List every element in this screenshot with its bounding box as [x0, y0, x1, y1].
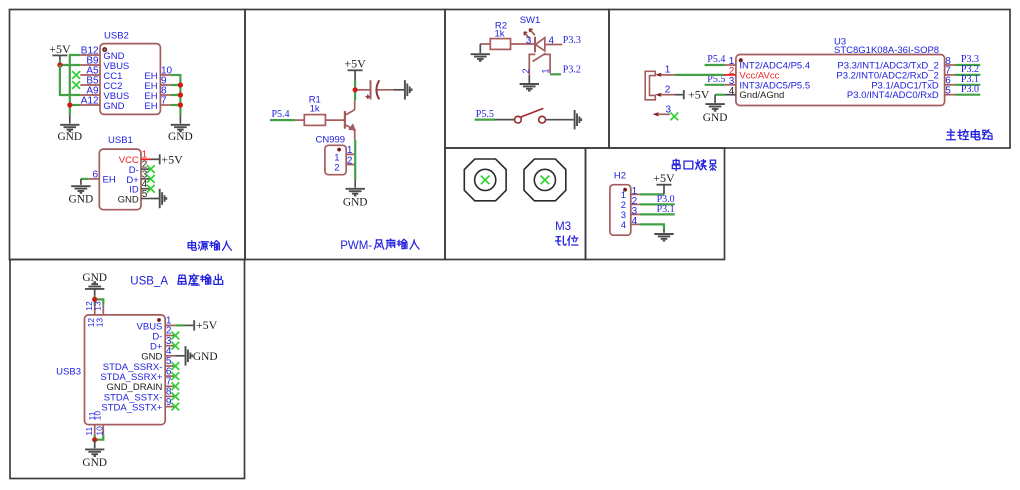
mounting hole M3 pad 2 — [524, 159, 566, 201]
U3 pin 6 — [945, 84, 955, 86]
wire +5V to VBUS A9 — [60, 65, 80, 95]
ground flipped (USB3 top) — [85, 288, 104, 290]
wire P3.3 — [955, 64, 981, 66]
mounting hole M3 pad 1 — [464, 159, 506, 201]
wire emitter to CN999 — [354, 140, 356, 165]
USB1 pin 5 GND — [141, 198, 151, 200]
svg-text:10: 10 — [95, 426, 105, 436]
no-connect X USB3 pin 7 — [171, 382, 179, 390]
svg-text:2: 2 — [665, 85, 671, 96]
switch lever — [521, 108, 544, 117]
collector pin — [354, 100, 356, 110]
H2 pin 2 — [631, 203, 640, 205]
USB1 pin 6 EH — [88, 178, 99, 180]
svg-text:EH: EH — [103, 175, 116, 186]
section frame: switch/LED — [445, 10, 609, 149]
wire EH7 — [170, 104, 180, 106]
wire P3.2 — [955, 74, 981, 76]
USB2 pin A9 — [80, 94, 100, 96]
gnd lead — [528, 75, 530, 83]
wire to P3.2 — [550, 73, 561, 75]
svg-text:USB1: USB1 — [108, 135, 133, 146]
svg-text:GND: GND — [343, 196, 368, 208]
wire P5.4 — [705, 64, 725, 66]
wire to GND — [151, 198, 160, 200]
USB1 pin 1 VCC — [141, 158, 151, 160]
no-connect X on CC2 — [72, 81, 80, 89]
switch lever — [533, 53, 546, 61]
svg-text:7: 7 — [161, 95, 167, 106]
wire pin4 to gnd — [715, 94, 725, 96]
junction GND top — [92, 297, 97, 302]
resistor R1 body — [304, 115, 325, 126]
connector USB2 body — [100, 44, 160, 115]
ground (H2) — [663, 230, 665, 233]
USB2 pin A5 — [80, 74, 100, 76]
USB3 pin 4 — [165, 355, 175, 357]
ground (USB2 left) — [69, 115, 71, 124]
title text serial — [672, 159, 680, 170]
wire H2 pin2 P3.0 — [640, 203, 675, 205]
CN999 pin-1 dot — [337, 148, 341, 152]
R2 right pin / wire to LED — [511, 43, 536, 45]
plug pin 1 — [655, 73, 661, 77]
svg-text:USB_A: USB_A — [130, 275, 168, 287]
+5V lead — [59, 55, 61, 60]
wire plug to Vcc — [675, 74, 724, 76]
no-connect X on CC1 — [72, 71, 80, 79]
svg-text:5: 5 — [945, 86, 951, 97]
no-connect X USB3 pin 9 — [171, 403, 179, 411]
svg-text:5: 5 — [142, 189, 148, 200]
plug connector (power in) body — [645, 71, 655, 100]
USB3 pin 9 — [165, 406, 175, 408]
USB3 pin 1 — [165, 324, 175, 326]
H2 pin 4 — [631, 223, 640, 225]
+5V flag (H2) — [657, 184, 672, 186]
USB3 pin-1 dot — [157, 318, 161, 322]
U3 pin 3 / P5.5 — [725, 84, 736, 86]
USB2 pin 8 — [160, 94, 170, 96]
wire P5.5 — [705, 84, 725, 86]
switch contact circle — [515, 116, 522, 123]
USB3 pin 6 — [165, 375, 175, 377]
svg-text:+5V: +5V — [161, 152, 183, 166]
svg-text:STDA_SSTX+: STDA_SSTX+ — [101, 403, 162, 414]
U3 pin-1 dot — [739, 58, 743, 62]
ground (R2) — [471, 53, 490, 55]
R1 right pin to base — [325, 119, 344, 121]
no-connect X plug pin3 — [670, 113, 678, 121]
wire pins 11/10 to GND — [94, 435, 96, 440]
svg-text:+5V: +5V — [196, 318, 218, 332]
junction collector/+5V — [353, 87, 358, 92]
ground sideways (USB3 pin4) — [185, 346, 187, 365]
svg-text:P3.3: P3.3 — [563, 35, 581, 46]
USB1 pin 2 — [141, 168, 151, 170]
wire H2 pin3 P3.1 — [640, 213, 675, 215]
svg-text:P5.4: P5.4 — [272, 109, 290, 120]
IC U3 body — [736, 55, 945, 106]
svg-text:13: 13 — [95, 318, 105, 328]
gnd lead — [479, 44, 481, 53]
USB3 pin 10 — [102, 425, 104, 435]
USB2 pin 10 — [160, 74, 170, 76]
svg-text:2: 2 — [347, 155, 353, 166]
svg-text:1: 1 — [665, 65, 671, 76]
ground sideways (P5.5 switch) — [574, 110, 576, 129]
svg-text:H2: H2 — [614, 171, 626, 182]
ground (SW1) — [520, 83, 539, 85]
ground (U3) — [714, 95, 716, 103]
USB3 pin 13 — [102, 305, 104, 315]
title text usb-a — [178, 275, 186, 284]
+5V lead — [354, 70, 356, 80]
svg-text:4: 4 — [632, 216, 638, 227]
wire P5.4 — [270, 119, 295, 121]
svg-text:GND: GND — [69, 194, 94, 206]
ground (CN999) — [354, 180, 356, 187]
LED emission arrows — [529, 29, 535, 35]
U3 pin 8 — [945, 64, 955, 66]
connector USB1 body — [99, 149, 141, 210]
switch contacts SW1 — [529, 54, 535, 75]
junction GND bottom — [92, 437, 97, 442]
ground (USB3 bottom) — [94, 440, 96, 449]
H2 pin 1 — [631, 193, 640, 195]
emitter pin — [354, 130, 356, 140]
svg-text:11: 11 — [84, 427, 94, 436]
USB2 pin 7 — [160, 104, 170, 106]
svg-text:+5V: +5V — [653, 171, 675, 185]
wire cap to ground — [394, 89, 405, 91]
R1 left pin — [295, 119, 304, 121]
svg-text:2: 2 — [521, 68, 531, 73]
LED anode wire — [545, 44, 563, 46]
svg-text:P3.0/INT4/ADC0/RxD: P3.0/INT4/ADC0/RxD — [847, 90, 939, 101]
junction EH — [178, 82, 183, 87]
CN999 pin 2 — [346, 164, 355, 166]
svg-text:GND: GND — [57, 131, 82, 143]
USB1 pin 4 — [141, 188, 151, 190]
title text pwm — [374, 240, 384, 249]
svg-text:10: 10 — [92, 411, 102, 421]
USB3 pin 11 — [94, 425, 96, 435]
svg-text:GND: GND — [168, 131, 193, 143]
wire GND pin4 sideways — [175, 355, 184, 357]
section frame: serial programming — [586, 148, 725, 260]
wire P5.5 — [475, 118, 495, 120]
svg-text:PWM-: PWM- — [340, 240, 372, 252]
USB3 pin 12 — [94, 305, 96, 315]
wire P3.0 — [955, 94, 981, 96]
USB2 pin B5 — [80, 84, 100, 86]
USB3 pin 8 — [165, 395, 175, 397]
USB2 pin 9 — [160, 84, 170, 86]
U3 pin 4 Gnd — [725, 94, 736, 96]
section frame: M3 holes — [445, 148, 586, 260]
USB2 pin-1 indicator — [103, 48, 106, 51]
wire EH9 — [170, 84, 180, 86]
wire pin6 — [81, 178, 89, 180]
no-connect X USB3 pin 6 — [171, 372, 179, 380]
svg-text:6: 6 — [92, 169, 98, 180]
capacitor C (polarized) — [358, 89, 370, 91]
wire VBUS to +5V — [175, 324, 185, 326]
junction EH — [178, 102, 183, 107]
wire H2 pin1 to +5V — [640, 193, 664, 195]
junction GND net — [67, 102, 72, 107]
USB3 pin 3 — [165, 345, 175, 347]
wire USB3 pins 12/13 to GND — [94, 296, 96, 305]
no-connect X pin 4 — [147, 185, 155, 193]
R2 left pin — [480, 43, 490, 45]
svg-text:P5.5: P5.5 — [476, 109, 494, 120]
svg-text:P3.1: P3.1 — [657, 204, 675, 215]
CN999 pin 1 — [346, 153, 355, 155]
svg-text:9: 9 — [166, 397, 172, 408]
svg-text:4: 4 — [621, 220, 626, 231]
ground sideways (cap) — [404, 80, 406, 99]
H2 pin 3 — [631, 213, 640, 215]
USB2 pin B12 — [80, 54, 100, 56]
svg-text:13: 13 — [93, 301, 103, 311]
U3 pin 2 Vcc — [724, 74, 736, 76]
wire GND B12 to A12 — [70, 55, 81, 115]
junction EH — [178, 92, 183, 97]
wire to +5V — [675, 94, 683, 96]
wire to A12 — [70, 104, 81, 106]
svg-text:GND: GND — [103, 101, 124, 112]
USB2 pin B9 — [80, 64, 100, 66]
no-connect X USB3 pin 8 — [171, 393, 179, 401]
svg-text:GND: GND — [703, 112, 728, 124]
section frame: main control — [609, 10, 1010, 149]
plug pin 3 (floating) — [653, 112, 659, 116]
svg-text:GND: GND — [193, 351, 218, 363]
title text main-control — [946, 129, 955, 139]
+5V flag sideways (plug) — [683, 90, 685, 99]
U3 pin 5 — [945, 94, 955, 96]
junction +5V net — [57, 62, 62, 67]
svg-text:A12: A12 — [81, 95, 99, 106]
no-connect X USB3 pin 5 — [171, 362, 179, 370]
wire H2 pin4 to GND — [640, 224, 664, 230]
svg-text:1k: 1k — [310, 103, 320, 114]
svg-text:SW1: SW1 — [520, 15, 541, 26]
title text power-input — [188, 241, 196, 251]
wire +5V to collector — [354, 80, 356, 100]
svg-text:GND: GND — [82, 457, 107, 469]
U3 pin 1 / P5.4 — [725, 64, 736, 66]
USB3 pin 2 — [165, 335, 175, 337]
USB3 pin 5 — [165, 365, 175, 367]
H2 pin-1 dot — [623, 188, 627, 192]
svg-text:1: 1 — [540, 68, 550, 73]
ground (USB2 right) — [179, 115, 181, 124]
+5V flag sideways (USB3) — [193, 320, 195, 330]
wire to ground — [546, 119, 574, 121]
section frame: power input — [10, 10, 246, 260]
+5V flag (USB2) — [52, 54, 67, 56]
svg-text:+5V: +5V — [344, 57, 366, 71]
no-connect X pin 2 — [147, 165, 155, 173]
no-connect X USB3 pin 2 — [171, 332, 179, 340]
svg-text:4: 4 — [729, 86, 735, 97]
+5V flag (PWM) — [348, 69, 363, 71]
svg-text:Gnd/AGnd: Gnd/AGnd — [739, 90, 784, 101]
svg-text:USB2: USB2 — [104, 30, 129, 41]
wire to switch — [495, 119, 514, 121]
title text M3 holes — [556, 236, 567, 245]
plug pin 2 — [655, 93, 661, 97]
transistor Q (NPN) — [344, 111, 346, 129]
wire +5V to VBUS — [59, 60, 61, 65]
header H2 body — [610, 185, 631, 236]
svg-text:P5.4: P5.4 — [707, 54, 725, 65]
+5V flag sideways (USB1) — [159, 154, 161, 164]
wire P3.1 — [955, 84, 981, 86]
svg-text:EH: EH — [144, 101, 157, 112]
section frame: PWM fan input — [245, 10, 445, 260]
gnd lead — [80, 179, 82, 185]
svg-text:P3.0: P3.0 — [961, 84, 979, 95]
svg-text:M3: M3 — [555, 221, 571, 233]
USB1 pin 3 — [141, 178, 151, 180]
USB2 pin A12 — [80, 104, 100, 106]
svg-text:+5V: +5V — [688, 87, 710, 101]
ground (USB1 pin6) — [71, 185, 90, 187]
wire EH8 — [170, 94, 180, 96]
connector USB3 body — [85, 315, 166, 425]
resistor R2 body — [490, 39, 510, 50]
USB3 pin 7 — [165, 385, 175, 387]
svg-text:GND: GND — [118, 194, 139, 205]
wire EH pins to GND — [170, 75, 180, 115]
ground sideways (USB1 pin5) — [159, 189, 161, 208]
no-connect X USB3 pin 3 — [171, 342, 179, 350]
svg-text:USB3: USB3 — [56, 367, 81, 378]
svg-text:P3.2: P3.2 — [563, 64, 581, 75]
no-connect X pin 3 — [147, 175, 155, 183]
svg-text:+5V: +5V — [49, 42, 71, 56]
wire CN999 pin2 to GND — [354, 165, 356, 181]
gnd lead — [94, 289, 96, 296]
svg-text:CN999: CN999 — [316, 135, 346, 146]
section frame: USB_A output — [10, 260, 245, 479]
wire to +5V — [151, 158, 160, 160]
U3 pin 7 — [945, 74, 955, 76]
svg-text:2: 2 — [334, 163, 339, 174]
switch contact circle — [539, 116, 546, 123]
